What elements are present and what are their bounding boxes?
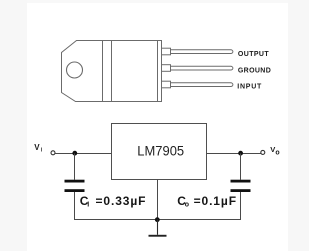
svg-text:GROUND: GROUND <box>238 67 271 74</box>
input terminal <box>51 151 55 155</box>
node VO label <box>270 145 279 156</box>
capacitor CO value label <box>177 194 237 209</box>
svg-text:I: I <box>87 202 89 209</box>
wire regulator to output <box>207 153 262 155</box>
output terminal <box>261 150 265 154</box>
svg-text:V: V <box>34 143 40 152</box>
capacitor CI <box>65 180 85 192</box>
package tab line 1 <box>102 41 104 102</box>
svg-text:o: o <box>275 149 279 156</box>
node VI label <box>34 143 43 154</box>
svg-text:LM7905: LM7905 <box>137 142 184 158</box>
svg-text:OUTPUT: OUTPUT <box>238 51 269 58</box>
lead 2 (GROUND pin) <box>162 65 233 72</box>
capacitor CI bottom lead <box>74 192 76 220</box>
svg-text:INPUT: INPUT <box>237 83 262 90</box>
capacitor CO <box>231 180 251 192</box>
capacitor CI value label <box>80 194 147 209</box>
capacitor CO top lead <box>240 154 242 180</box>
ground symbol <box>149 220 167 237</box>
svg-text:=0.1µF: =0.1µF <box>194 194 237 208</box>
lead 1 (OUTPUT pin) <box>162 48 233 55</box>
package tab line 2 <box>111 41 113 102</box>
output junction node <box>238 151 243 156</box>
mounting hole <box>67 62 83 78</box>
capacitor CI top lead <box>74 154 76 180</box>
capacitor CO bottom lead <box>240 192 242 220</box>
TO-220 package body <box>62 41 162 102</box>
package right inner line <box>157 41 159 102</box>
regulator U1 LM7905 box <box>112 124 207 180</box>
input junction node <box>72 151 77 156</box>
ground junction node <box>155 217 160 222</box>
svg-text:=0.33µF: =0.33µF <box>96 194 147 208</box>
wire input to regulator <box>55 153 112 155</box>
svg-text:o: o <box>185 202 189 209</box>
bottom rail wire <box>75 219 241 221</box>
regulator ground lead <box>157 180 159 220</box>
lead 3 (INPUT pin) <box>162 81 233 88</box>
